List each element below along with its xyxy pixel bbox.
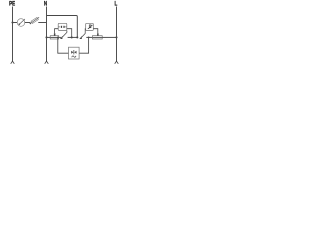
wire D2 to fuse F2 bbox=[86, 36, 92, 38]
L rail bbox=[116, 7, 118, 62]
wire indicator to fuse-disconnector bbox=[25, 22, 31, 24]
suppressor U3 AC tilde bbox=[72, 56, 76, 57]
node A bbox=[71, 36, 73, 38]
wire U1 left stub bbox=[55, 29, 59, 34]
node T2 bbox=[88, 37, 90, 39]
suppressor U3 box bbox=[69, 47, 80, 59]
disconnector D2 bbox=[79, 36, 81, 39]
varistor U2 bbox=[86, 23, 94, 30]
link D1 to arrester U1 bbox=[66, 31, 68, 33]
wire fuse-disconnector to N rail bbox=[38, 22, 46, 24]
node N junction bbox=[45, 36, 47, 38]
indicator spark-gap circle bbox=[17, 19, 25, 27]
arrester U1 gas discharge tube bbox=[58, 23, 67, 30]
wire F2 to L rail bbox=[102, 36, 116, 38]
fuse F1 bbox=[50, 36, 59, 38]
wire U2 right stub bbox=[93, 29, 98, 34]
wire N to fuse F1 bbox=[47, 36, 51, 38]
disconnector D1 bbox=[60, 36, 62, 39]
suppressor U3 electrodes bbox=[73, 50, 75, 54]
PE rail continuation arrow bbox=[11, 61, 15, 64]
PE rail bbox=[12, 7, 14, 62]
node T1 bbox=[57, 37, 59, 39]
node B bbox=[76, 36, 78, 38]
wire U1 right stub bbox=[67, 29, 72, 38]
L rail continuation arrow bbox=[115, 61, 119, 64]
wire F1 to disconnector D1 bbox=[59, 36, 61, 38]
node L junction bbox=[115, 36, 117, 38]
fuse F2 bbox=[92, 36, 102, 38]
wire tap T2 down to suppressor bbox=[79, 37, 89, 53]
wire tap T1 down to suppressor bbox=[58, 37, 69, 53]
N rail continuation arrow bbox=[45, 61, 49, 64]
link D2 to varistor U2 bbox=[84, 29, 87, 34]
wire D1 to node A bbox=[68, 36, 78, 38]
node PE junction bbox=[11, 21, 13, 23]
N rail bbox=[46, 7, 48, 62]
wire N to corner (top) bbox=[47, 16, 78, 38]
wire PE to indicator bbox=[13, 22, 18, 24]
fuse-disconnector F3 bbox=[30, 23, 32, 25]
